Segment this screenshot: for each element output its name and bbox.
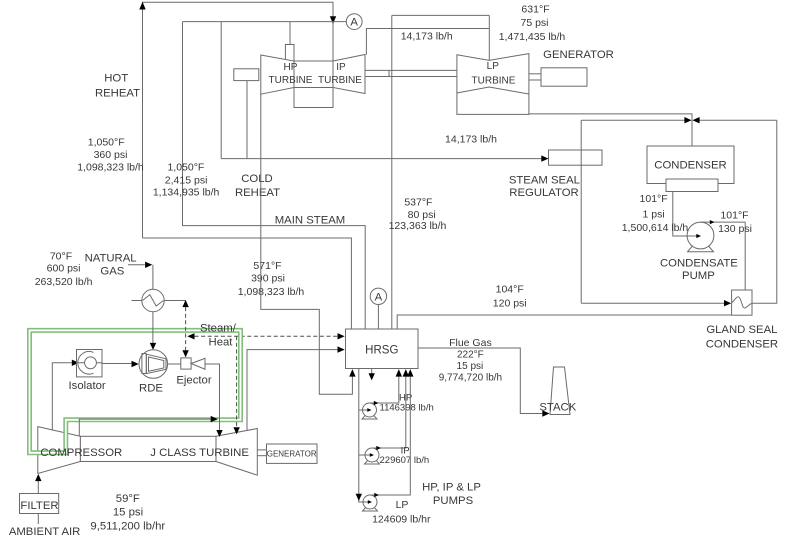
- svg-text:631°F: 631°F: [521, 3, 549, 15]
- svg-text:HP, IP & LP: HP, IP & LP: [422, 482, 481, 494]
- J class turbine: [216, 429, 257, 476]
- machine casing: [80, 436, 216, 461]
- ejector box: [181, 358, 191, 369]
- svg-text:IP: IP: [336, 62, 346, 73]
- svg-text:GENERATOR: GENERATOR: [543, 49, 614, 61]
- steam seal regulator box: [549, 150, 603, 165]
- isolator circle: [85, 357, 97, 369]
- condenser hotwell: [666, 179, 718, 192]
- svg-text:70°F: 70°F: [50, 251, 72, 263]
- isolator box: [77, 350, 103, 377]
- ejector horn: [191, 358, 205, 369]
- wire filter inlet: [37, 514, 39, 525]
- svg-text:HRSG: HRSG: [365, 345, 398, 357]
- svg-text:MAIN STEAM: MAIN STEAM: [275, 215, 346, 227]
- svg-text:PUMP: PUMP: [682, 270, 715, 282]
- svg-text:Isolator: Isolator: [69, 380, 106, 392]
- RDE horn inner: [149, 357, 164, 371]
- svg-text:REHEAT: REHEAT: [95, 88, 140, 100]
- svg-text:Flue Gas: Flue Gas: [449, 337, 492, 349]
- svg-text:HP: HP: [284, 62, 298, 73]
- svg-text:537°F: 537°F: [404, 197, 432, 209]
- svg-text:1,050°F: 1,050°F: [167, 162, 204, 174]
- shaft IP to LP upper: [365, 69, 457, 71]
- svg-text:229607 lb/h: 229607 lb/h: [380, 455, 430, 466]
- wire pump suction header from HRSG: [359, 369, 363, 503]
- HP pump base: [362, 416, 377, 419]
- dashed drop to ejector: [185, 307, 187, 350]
- arrow right at condenser drop: [684, 117, 691, 123]
- svg-text:1,050°F: 1,050°F: [88, 137, 125, 149]
- svg-text:Heat: Heat: [209, 337, 234, 349]
- turbine crossover box lower: [294, 88, 333, 108]
- node A connector top: [346, 14, 362, 30]
- arrow into isolator: [72, 360, 79, 366]
- HP turbine gland box: [234, 69, 259, 81]
- wire steam seal run to regulator: [221, 158, 541, 160]
- arrow LP discharge into HRSG: [407, 369, 413, 377]
- arrow up at hot reheat top corner: [139, 2, 145, 10]
- wire pump outlet down to gland seal condenser: [744, 222, 746, 290]
- dashed steam heat run to HRSG: [195, 335, 338, 337]
- svg-text:59°F: 59°F: [116, 493, 140, 505]
- svg-text:600 psi: 600 psi: [47, 263, 81, 275]
- svg-text:101°F: 101°F: [640, 193, 668, 205]
- svg-text:Ejector: Ejector: [176, 375, 211, 387]
- svg-text:130 psi: 130 psi: [718, 223, 752, 235]
- svg-text:15 psi: 15 psi: [113, 507, 143, 519]
- svg-text:1,500,614 lb/h: 1,500,614 lb/h: [622, 222, 689, 234]
- HP pump suction stub: [359, 409, 368, 411]
- wire natural gas drop to RDE: [152, 265, 154, 344]
- IP pump suction stub: [359, 454, 370, 456]
- gland seal condenser coil: [732, 297, 752, 308]
- HP turbine: [261, 55, 294, 94]
- LP pump base: [363, 508, 378, 511]
- svg-text:CONDENSER: CONDENSER: [654, 159, 726, 171]
- arrow into stack: [542, 410, 549, 416]
- gland seal condenser box: [732, 290, 752, 315]
- heat exchanger stub right: [164, 300, 186, 302]
- svg-text:1,134,935 lb/h: 1,134,935 lb/h: [153, 187, 220, 199]
- heat exchanger zigzag: [143, 295, 164, 306]
- wire steam seal branch from top header: [220, 22, 222, 159]
- wire LP seal header: [392, 14, 490, 16]
- svg-text:CONDENSER: CONDENSER: [706, 338, 778, 350]
- wire steam seal to gland seal condenser: [581, 302, 724, 304]
- svg-text:263,520 lb/h: 263,520 lb/h: [35, 276, 93, 288]
- svg-text:1,098,323 lb/h: 1,098,323 lb/h: [77, 162, 144, 174]
- svg-text:REGULATOR: REGULATOR: [509, 187, 578, 199]
- arrow into turbine inlet junction: [211, 416, 218, 422]
- dashed steam heat drop to J class turbine: [236, 336, 238, 427]
- svg-text:A: A: [350, 17, 358, 29]
- wire flue gas to stack: [418, 348, 542, 414]
- svg-text:1,098,323 lb/h: 1,098,323 lb/h: [238, 286, 305, 298]
- IP pump discharge: [372, 376, 406, 448]
- svg-text:STACK: STACK: [539, 402, 576, 414]
- stack: [550, 367, 570, 415]
- wire RDE to ejector: [168, 363, 181, 365]
- svg-text:TURBINE: TURBINE: [269, 75, 313, 86]
- RDE circle: [139, 350, 168, 379]
- svg-text:GAS: GAS: [100, 266, 124, 278]
- wire HP turbine inlet drop: [289, 22, 291, 45]
- wire hot reheat horizontal to HRSG top: [143, 238, 352, 329]
- svg-text:COLD: COLD: [241, 173, 272, 185]
- svg-text:123,363 lb/h: 123,363 lb/h: [389, 220, 447, 232]
- arrow down into J class turbine casing: [216, 430, 222, 437]
- LP pump suction stub: [363, 501, 368, 503]
- svg-text:390 psi: 390 psi: [251, 273, 285, 285]
- HRSG box: [346, 329, 419, 369]
- svg-text:120 psi: 120 psi: [493, 298, 527, 310]
- wire seal header right: [700, 119, 777, 121]
- generator top box: [541, 68, 587, 86]
- shaft turbine to generator: [257, 449, 266, 451]
- arrow into steam seal regulator: [541, 155, 548, 161]
- arrow left at condenser drop: [692, 117, 699, 123]
- LP turbine: [457, 54, 529, 115]
- arrow down into RDE top: [150, 343, 156, 350]
- wire filter to compressor: [37, 481, 39, 494]
- IP pump: [365, 448, 379, 462]
- svg-text:Steam/: Steam/: [200, 323, 237, 335]
- wire right side down run to gland seal condenser: [752, 120, 777, 303]
- svg-text:LP: LP: [396, 499, 409, 511]
- svg-text:222°F: 222°F: [457, 350, 484, 361]
- arrow left end steam heat: [187, 333, 194, 339]
- svg-text:15 psi: 15 psi: [457, 361, 484, 372]
- svg-text:9,511,200 lb/hr: 9,511,200 lb/hr: [90, 521, 165, 533]
- wire natural gas arrow: [128, 264, 145, 266]
- svg-text:REHEAT: REHEAT: [235, 187, 280, 199]
- heat exchanger circle: [142, 289, 164, 311]
- svg-text:1146398 lb/h: 1146398 lb/h: [380, 403, 434, 414]
- svg-text:104°F: 104°F: [496, 284, 524, 296]
- wire ejector outlet to J class turbine: [205, 364, 220, 430]
- wire main steam riser: [183, 22, 366, 329]
- svg-text:STEAM SEAL: STEAM SEAL: [509, 175, 580, 187]
- arrow into HRSG left: [338, 346, 345, 352]
- HP pump discharge: [370, 376, 399, 403]
- wire compressor discharge: [79, 419, 210, 436]
- condenser box: [647, 146, 734, 184]
- arrow up into hx outlet junction: [182, 300, 188, 307]
- wire seal header left with arrow into condenser drop: [581, 119, 684, 121]
- wire LP exhaust to condenser: [529, 114, 692, 146]
- svg-text:571°F: 571°F: [253, 260, 281, 272]
- svg-text:A: A: [375, 291, 383, 303]
- wire LP turbine inlet: [488, 15, 490, 60]
- svg-text:LP: LP: [487, 61, 500, 72]
- wire steam seal regulator drop: [580, 120, 582, 303]
- HRSG bottom stub arrow down: [371, 369, 373, 374]
- HP turbine inlet pipe: [285, 45, 294, 62]
- wire HP gland drop: [246, 81, 248, 159]
- filter box: [20, 494, 59, 514]
- wire LP steam drop from HRSG: [391, 15, 393, 329]
- IP turbine: [333, 55, 365, 94]
- svg-text:GLAND SEAL: GLAND SEAL: [706, 324, 777, 336]
- shaft LP to generator: [529, 73, 541, 75]
- arrow small pump outlet: [710, 220, 715, 224]
- svg-text:14,173 lb/h: 14,173 lb/h: [401, 31, 453, 43]
- svg-text:1 psi: 1 psi: [643, 208, 665, 220]
- arrow HP discharge into HRSG: [396, 369, 402, 377]
- compressor: [38, 427, 81, 474]
- arrow down at LP pump suction: [356, 494, 362, 501]
- shaft IP to LP lower: [365, 76, 457, 78]
- wire IP exhaust riser: [366, 29, 489, 55]
- LP pump discharge: [370, 376, 410, 495]
- svg-text:GENERATOR: GENERATOR: [267, 450, 317, 459]
- svg-text:14,173 lb/h: 14,173 lb/h: [445, 134, 497, 146]
- condensate pump outlet: [701, 221, 746, 223]
- wire isolator to RDE: [102, 363, 131, 365]
- svg-text:1,471,435 lb/h: 1,471,435 lb/h: [499, 31, 566, 43]
- isolator arc: [78, 352, 94, 375]
- wire J class turbine exhaust to HRSG: [247, 350, 338, 432]
- condensate pump: [687, 222, 714, 249]
- arrow into gland seal condenser: [724, 300, 731, 306]
- condensate pump base: [688, 247, 714, 252]
- wire hotwell to condensate pump: [673, 192, 697, 237]
- arrow down into ejector: [182, 350, 188, 357]
- shaft cap: [388, 70, 390, 76]
- LP turbine inner bottom: [457, 87, 529, 94]
- arrow up into HRSG bottom: [349, 369, 355, 377]
- svg-text:360 psi: 360 psi: [94, 149, 128, 161]
- RDE inner plate: [142, 354, 146, 374]
- svg-text:FILTER: FILTER: [20, 500, 58, 512]
- arrow up into compressor: [35, 474, 41, 481]
- wire 104F line from HRSG to gland seal condenser: [397, 315, 731, 329]
- generator bottom box: [267, 444, 318, 463]
- svg-text:TURBINE: TURBINE: [472, 76, 516, 87]
- arrow down into J class turbine dashed: [233, 427, 239, 434]
- isolator internal line: [77, 362, 103, 364]
- svg-text:COMPRESSOR: COMPRESSOR: [40, 447, 122, 459]
- arrow IP discharge into HRSG: [403, 369, 409, 377]
- svg-text:RDE: RDE: [139, 383, 163, 395]
- svg-text:75 psi: 75 psi: [520, 17, 548, 29]
- arrow down on hot reheat drop into IP turbine: [330, 16, 336, 24]
- svg-text:124609 lb/hr: 124609 lb/hr: [372, 514, 431, 526]
- heat exchanger stub left: [132, 300, 143, 302]
- svg-text:9,774,720 lb/h: 9,774,720 lb/h: [439, 372, 502, 383]
- wire hot reheat riser and top run: [143, 2, 334, 238]
- svg-text:2,415 psi: 2,415 psi: [165, 174, 208, 186]
- svg-text:101°F: 101°F: [720, 209, 748, 221]
- svg-text:CONDENSATE: CONDENSATE: [660, 258, 738, 270]
- svg-text:NATURAL: NATURAL: [85, 253, 137, 265]
- svg-text:TURBINE: TURBINE: [318, 75, 362, 86]
- arrow right end steam heat into HRSG: [338, 333, 345, 339]
- wire main steam top header: [183, 21, 347, 23]
- green highlight loop: [30, 330, 241, 452]
- svg-text:AMBIENT AIR: AMBIENT AIR: [9, 526, 81, 538]
- wire compressor bleed to isolator: [52, 363, 72, 431]
- turbine crossover box upper: [294, 61, 333, 88]
- arrow into RDE: [132, 361, 139, 367]
- RDE horn outer: [146, 354, 166, 373]
- svg-text:J CLASS TURBINE: J CLASS TURBINE: [150, 447, 249, 459]
- arrow small into pump: [696, 234, 701, 238]
- node A connector above HRSG: [377, 305, 379, 330]
- LP pump: [363, 495, 377, 509]
- svg-text:PUMPS: PUMPS: [433, 495, 474, 507]
- HP pump: [363, 403, 377, 417]
- svg-text:HOT: HOT: [104, 73, 128, 85]
- IP pump base: [365, 461, 380, 464]
- wire cold reheat from HP turbine to HRSG bottom: [261, 94, 353, 394]
